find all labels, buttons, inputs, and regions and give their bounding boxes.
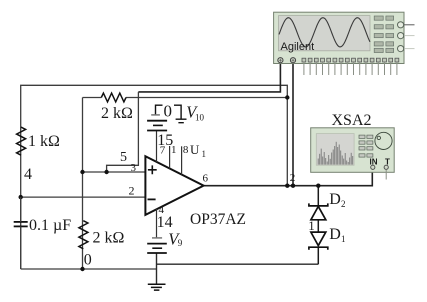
XSA2 spectrum bars	[318, 142, 353, 165]
pin 8 stub	[181, 146, 183, 174]
wire: inverting input wire y=197.1	[21, 196, 146, 198]
wire: noninverting input wire y=172	[83, 171, 146, 173]
resistor R2 2k top	[101, 93, 126, 102]
ground for V10	[176, 119, 187, 123]
svg-text:2: 2	[290, 172, 296, 184]
svg-text:1 kΩ: 1 kΩ	[28, 133, 60, 150]
XSA2 IN terminal	[371, 165, 375, 169]
svg-text:Agilent: Agilent	[281, 41, 315, 53]
battery V9	[147, 238, 167, 253]
V10 negative plate	[151, 114, 160, 116]
wire: supply chain vertical (battery stub to ground)	[156, 253, 158, 284]
wire: bottom left ground wire	[21, 268, 157, 270]
svg-text:14: 14	[157, 214, 173, 231]
svg-text:2 kΩ: 2 kΩ	[93, 230, 125, 247]
svg-text:XSA2: XSA2	[332, 112, 372, 129]
node dot diode tee	[316, 184, 320, 188]
svg-text:1: 1	[202, 149, 207, 159]
XSA2 knob	[375, 132, 392, 149]
XSA2 T terminal	[384, 165, 388, 169]
svg-text:U: U	[190, 142, 200, 157]
node dot feedback top	[285, 95, 289, 99]
XSA2 T stub	[385, 170, 387, 180]
svg-text:10: 10	[195, 113, 205, 123]
spectrum analyzer XSA2 body	[311, 128, 395, 180]
scope buttons	[374, 16, 393, 53]
op-amp U1 triangle	[145, 156, 203, 215]
svg-text:OP37AZ: OP37AZ	[190, 211, 246, 228]
pin 4 stub	[156, 209, 158, 238]
pin 7 stub	[156, 131, 158, 163]
diode D1 triangle	[311, 232, 326, 246]
capacitor lead gap cover	[20, 197, 22, 269]
resistor R3 2k bottom	[79, 221, 88, 249]
svg-text:2: 2	[341, 199, 346, 209]
diode D2 triangle	[311, 206, 326, 219]
node dot 5 right	[104, 170, 108, 174]
svg-text:9: 9	[178, 238, 183, 248]
scope side knobs	[398, 22, 415, 52]
svg-text:5: 5	[120, 150, 127, 165]
wire: 2k top left lead	[83, 97, 102, 99]
svg-text:8: 8	[183, 144, 189, 156]
svg-text:0: 0	[84, 252, 92, 269]
diode D2 cathode bar	[309, 203, 328, 206]
svg-text:0.1 µF: 0.1 µF	[29, 217, 71, 234]
capacitor C1 0.1uF	[14, 222, 28, 227]
scope waveform	[279, 18, 370, 47]
wire: bottom right ground wire	[157, 263, 319, 265]
node dot 5 left	[80, 170, 84, 174]
pin 1 stub	[169, 146, 171, 169]
node dot output b	[291, 184, 295, 188]
wire: left vertical branch x=82.5	[82, 98, 84, 270]
svg-text:D: D	[329, 226, 341, 243]
battery V15 plates	[147, 121, 167, 131]
svg-text:2: 2	[129, 184, 135, 198]
svg-text:15: 15	[157, 132, 173, 149]
ground symbol bottom	[148, 284, 166, 290]
svg-text:1: 1	[308, 218, 315, 233]
wire: output wire to XSA2	[204, 171, 373, 186]
diode D1 cathode bar	[309, 247, 328, 250]
svg-text:4: 4	[24, 166, 32, 183]
scope probe terminals	[278, 58, 283, 63]
XSA2 buttons	[359, 135, 373, 157]
node dot output a	[285, 184, 289, 188]
scope screen	[279, 16, 371, 51]
wire: top feedback wire from output to left branch	[21, 85, 288, 269]
svg-text:6: 6	[203, 173, 209, 185]
svg-text:0: 0	[164, 102, 173, 121]
svg-text:D: D	[329, 191, 341, 208]
op-amp minus sign	[148, 198, 156, 200]
node dot 4	[19, 195, 23, 199]
svg-text:2 kΩ: 2 kΩ	[101, 105, 133, 122]
oscilloscope XSC body	[274, 12, 415, 75]
svg-text:1: 1	[341, 234, 346, 244]
XSA2 screen	[316, 134, 354, 166]
node dot 0	[80, 267, 84, 271]
resistor R1 1k	[17, 127, 26, 155]
wire: probe B vertical from scope to output	[292, 63, 294, 186]
svg-text:3: 3	[131, 162, 137, 174]
scope bottom pins	[302, 58, 399, 75]
wire: 2k top right lead to output vertical	[126, 97, 287, 99]
op-amp plus sign	[148, 165, 157, 174]
wire: diode branch vertical	[317, 186, 319, 265]
wire: probe A path from scope to + input step	[138, 63, 280, 92]
source V10 bracket with 0	[156, 105, 182, 119]
